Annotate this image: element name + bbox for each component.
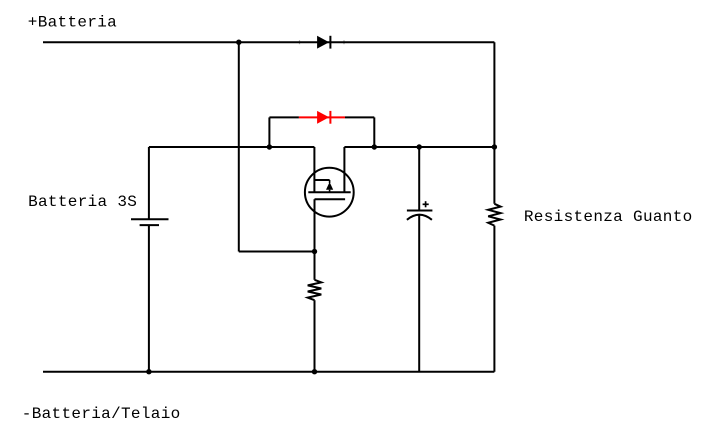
junction dot right rail mid xyxy=(492,144,497,149)
wire mid rail right segment xyxy=(344,146,494,148)
Q1 bottom plate xyxy=(315,198,346,200)
svg-text:Resistenza Guanto: Resistenza Guanto xyxy=(524,208,693,226)
svg-text:-Batteria/Telaio: -Batteria/Telaio xyxy=(22,405,181,423)
wire R2 bottom lead xyxy=(314,300,316,372)
junction dot loop left xyxy=(267,144,272,149)
Q1 gate corner horizontal xyxy=(314,179,329,181)
svg-text:Batteria 3S: Batteria 3S xyxy=(28,193,137,211)
Q1 arrow stem xyxy=(329,190,331,193)
wire mid rail left segment xyxy=(149,146,315,148)
capacitor C1 polarized xyxy=(407,201,433,220)
Q1 arrow stub xyxy=(329,180,331,183)
svg-text:+Batteria: +Batteria xyxy=(28,14,117,32)
wire right rail bottom vertical xyxy=(493,226,495,372)
junction dot loop right xyxy=(372,144,377,149)
wire battery bottom lead xyxy=(148,225,150,372)
resistor R2 (gate pulldown) xyxy=(308,280,322,300)
wire capacitor bottom lead xyxy=(418,215,420,372)
wire bypass loop top left (black) xyxy=(269,116,299,118)
diode D2 red body xyxy=(317,111,330,124)
Q1 top plate xyxy=(308,191,350,193)
Q1 gate pin vertical xyxy=(313,147,315,192)
wire gate-drive vertical xyxy=(238,42,240,251)
wire right rail top vertical xyxy=(493,42,495,204)
junction dot capacitor top xyxy=(417,144,422,149)
Q1 arrow (points up) xyxy=(326,182,333,190)
wire bottom rail -Batteria/Telaio xyxy=(43,371,494,373)
wire bypass loop left vertical xyxy=(268,117,270,147)
wire bypass loop right vertical xyxy=(373,117,375,147)
diode D2 red leads xyxy=(299,116,345,118)
wire battery top lead xyxy=(148,147,150,219)
junction dot R2 bottom xyxy=(312,369,317,374)
junction dot top rail / gate-drive branch xyxy=(236,40,241,45)
resistor R1 Resistenza Guanto xyxy=(488,204,500,226)
Q1 source vertical down xyxy=(314,199,316,280)
diode D1 pin tick left xyxy=(299,40,300,44)
wire bypass loop top right (black) xyxy=(345,116,374,118)
wire capacitor top lead xyxy=(418,147,420,211)
diode D1 on top rail xyxy=(317,36,330,49)
diode D1 pin tick right xyxy=(343,40,344,44)
wire top rail +Batteria xyxy=(43,41,494,43)
Q1 drain pin vertical xyxy=(343,147,345,192)
battery B1 Batteria 3S xyxy=(131,219,169,225)
junction dot at MOSFET source column xyxy=(312,249,317,254)
wire gate-drive horizontal xyxy=(239,251,315,253)
junction dot battery bottom xyxy=(146,369,151,374)
transistor Q1 MOSFET circle xyxy=(305,168,354,217)
